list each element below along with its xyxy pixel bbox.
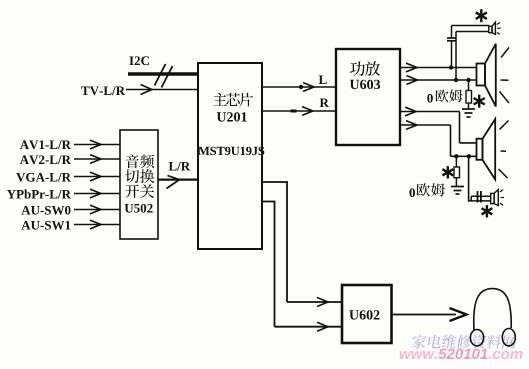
resistor R2 0-ohm (454, 156, 460, 186)
wire U201 to U602 top (262, 182, 342, 307)
wire to buzzer1 top (452, 25, 490, 27)
capacitor C1 (447, 26, 457, 68)
ground 1 (462, 109, 475, 117)
buzzer BZ1 (489, 22, 501, 34)
headphone (470, 289, 515, 346)
junction dots speaker1 minus (454, 78, 471, 82)
junction dot on L wire (299, 85, 303, 89)
label AV2-L/R (20, 155, 71, 164)
input wire AU-SW0 (74, 205, 120, 214)
resistor R1 0-ohm (466, 80, 472, 109)
label U603 (350, 80, 380, 89)
label U201 (217, 112, 247, 121)
label 开关 (125, 184, 154, 198)
bus slash marks (155, 64, 173, 88)
wire L/R to U201 (158, 176, 198, 189)
wire R to U603 (262, 107, 336, 116)
label AU-SW0 (21, 206, 70, 215)
label 功放 (350, 61, 380, 76)
label YPbPr-L/R (7, 190, 71, 199)
label MST9U19JS (198, 147, 264, 155)
label AV1-L/R (20, 140, 71, 149)
asterisk mark 4 (482, 205, 493, 217)
input wire AV1-L/R (74, 140, 120, 149)
buzzer BZ2 (491, 190, 504, 206)
wire TV-L/R (126, 85, 198, 95)
label U502 (125, 204, 153, 213)
ground 2 (451, 187, 464, 195)
main chip U201 box (198, 63, 262, 249)
wire I2C bus (128, 72, 198, 75)
label VGA-L/R (16, 173, 71, 182)
asterisk mark 1 (476, 9, 487, 22)
label 0欧姆 bottom (410, 183, 446, 197)
label L/R (169, 162, 191, 171)
speaker SP2 (477, 119, 509, 179)
asterisk mark 2 (474, 95, 485, 108)
label 0欧姆 top (427, 89, 462, 102)
label R (320, 99, 329, 108)
capacitor C2 (469, 156, 491, 202)
watermark 家电维修资料网 (411, 335, 517, 349)
wire speaker2 plus (400, 107, 477, 143)
label 主芯片 (213, 93, 253, 107)
label I2C (129, 56, 149, 65)
watermark www.520101.com (400, 349, 523, 360)
input wire VGA-L/R (74, 172, 120, 181)
wire speaker1 minus (400, 76, 477, 85)
headphone amp U602 box (342, 285, 392, 343)
input wire AU-SW1 (74, 220, 120, 229)
label TV-L/R (81, 86, 125, 95)
input wire YPbPr-L/R (74, 189, 120, 198)
label U602 (349, 310, 379, 319)
label 切换 (125, 169, 154, 183)
label L (319, 76, 327, 85)
wire U201 to U602 bottom (262, 202, 342, 332)
junction dots speaker2 minus (454, 154, 471, 158)
amplifier U603 box (336, 49, 400, 145)
wire speaker2 minus (400, 121, 477, 157)
asterisk mark 3 (442, 166, 453, 178)
wire L to U603 (262, 83, 336, 92)
label 音频 (125, 154, 154, 168)
wire to buzzer1 bottom (456, 32, 489, 81)
junction dot speaker1 plus (449, 65, 453, 69)
input wire AV2-L/R (74, 155, 120, 164)
audio switch U502 box (120, 130, 158, 239)
wire speaker1 plus (400, 63, 477, 72)
label AU-SW1 (21, 221, 70, 230)
wire U602 to headphone (392, 308, 467, 321)
speaker SP1 (477, 44, 510, 107)
